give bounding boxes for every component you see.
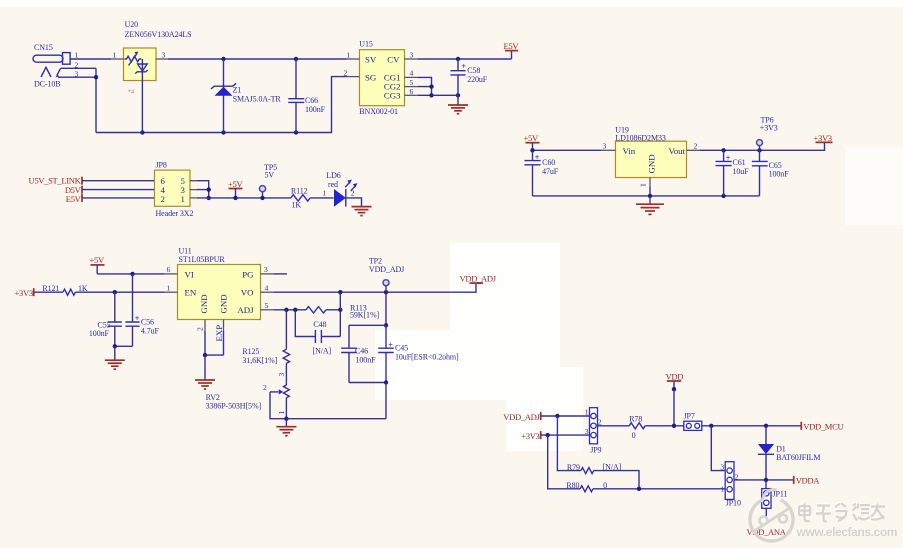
testpoint TP5 (259, 163, 277, 198)
node C55 bottom (113, 344, 117, 348)
svg-text:1: 1 (585, 408, 589, 417)
node C45 bottom (384, 380, 388, 384)
node ADJ right (338, 308, 342, 312)
svg-text:4: 4 (410, 69, 414, 78)
node C61 rail (721, 194, 725, 198)
svg-text:R125: R125 (242, 347, 259, 356)
wire top rail U20 to U15 (168, 58, 347, 60)
svg-text:Header 3X2: Header 3X2 (156, 209, 194, 218)
wire VDD down to line (673, 389, 675, 426)
wire LD6 to ground (346, 198, 361, 206)
jumper JP7 (684, 412, 702, 431)
svg-text:59K[1%]: 59K[1%] (350, 311, 380, 320)
svg-text:+3V3: +3V3 (814, 133, 832, 143)
svg-text:U15: U15 (359, 40, 373, 49)
wire R112 to LD6 (310, 197, 333, 199)
svg-text:ZEN056V130A24LS: ZEN056V130A24LS (125, 30, 192, 39)
svg-text:1: 1 (347, 51, 351, 60)
svg-text:E5V: E5V (504, 41, 520, 51)
node EXP (203, 353, 207, 357)
node CG2 (429, 84, 433, 88)
filter U15 BNX002-01 (344, 40, 419, 117)
svg-text:R121: R121 (42, 284, 59, 293)
svg-text:0: 0 (603, 481, 607, 490)
regulator U11 ST1L05BPUR (165, 247, 275, 342)
svg-text:GND: GND (647, 154, 657, 173)
svg-text:6: 6 (410, 87, 414, 96)
port VDD_MCU (801, 421, 844, 431)
power E5V (504, 41, 520, 59)
header JP9 (585, 408, 602, 455)
svg-text:VDDA: VDDA (796, 476, 821, 486)
svg-text:3: 3 (410, 51, 414, 60)
svg-text:GND: GND (219, 294, 229, 313)
port D5V (65, 185, 82, 195)
svg-text:1K: 1K (78, 284, 88, 293)
wire R121 to EN (75, 291, 164, 293)
svg-text:PG: PG (242, 269, 254, 279)
resistor R112 1K (291, 187, 310, 210)
wire ADJ line (274, 309, 306, 311)
wire R113 to vertical (326, 309, 340, 311)
node C46 link top (384, 323, 388, 327)
node C65 top (757, 148, 761, 152)
wire JP11 down (765, 508, 767, 524)
wire CV to E5V (418, 58, 512, 60)
node GND rail (648, 194, 652, 198)
capacitor C66 100nF (288, 59, 325, 133)
ground below C58 (448, 105, 468, 114)
node pin3 junction (94, 75, 98, 79)
svg-text:1K: 1K (292, 201, 302, 210)
svg-text:RV2: RV2 (206, 393, 220, 402)
wire U19 GND pin down (649, 187, 651, 196)
header JP11 (762, 489, 788, 509)
wire EXP pins down (205, 331, 224, 355)
svg-text:*4: *4 (128, 90, 134, 96)
svg-text:100nF: 100nF (356, 356, 377, 365)
svg-text:C66: C66 (305, 96, 318, 105)
svg-text:5V: 5V (265, 170, 275, 179)
capacitor C48 N/A (295, 310, 340, 356)
svg-text:CN15: CN15 (34, 43, 53, 52)
svg-text:VI: VI (185, 269, 194, 279)
svg-text:JP8: JP8 (156, 161, 167, 170)
capacitor C45 10uF (378, 325, 459, 382)
node RV2 ground (284, 417, 288, 421)
svg-text:1: 1 (277, 411, 286, 415)
testpoint TP6 (757, 115, 778, 150)
wire VO to VDD_ADJ (274, 283, 476, 292)
power +5V at JP8 (228, 179, 243, 198)
polyzen U20 ZEN056V130A24LS (111, 20, 192, 96)
wire VDD_ADJ to JP9 pin1 (541, 415, 590, 417)
wire bottom rail to C45 (286, 418, 386, 420)
port VDD_ADJ left (503, 412, 540, 422)
svg-text:C45: C45 (395, 344, 408, 353)
node JP10 branch (709, 424, 713, 428)
wire JP8 right bus (197, 181, 209, 198)
svg-text:+5V: +5V (228, 179, 243, 189)
wire +3V3 to R121 (34, 291, 63, 293)
svg-text:C61: C61 (733, 158, 746, 167)
capacitor C56 4.7uF (125, 274, 159, 346)
ground below RV2 (276, 427, 296, 436)
wire JP10 pin2 to VDDA (734, 479, 794, 481)
power +3V3 at U19 output (814, 133, 833, 143)
wire EXP to ground (204, 355, 206, 380)
power +5V at U19 input (524, 133, 540, 150)
wire ground rail U19 (533, 195, 760, 197)
resistor R79 N/A (557, 416, 639, 489)
svg-text:1: 1 (323, 189, 327, 198)
node top rail C66 (294, 57, 298, 61)
svg-text:10uF[ESR<0.2ohm]: 10uF[ESR<0.2ohm] (395, 353, 459, 362)
watermark chinese text (798, 502, 885, 522)
capacitor C65 100nF (752, 150, 789, 196)
svg-text:R112: R112 (291, 187, 308, 196)
node VDD_ADJ branch (555, 414, 559, 418)
port +3V3 at R121 (15, 288, 34, 298)
resistor R78 0 (629, 415, 645, 440)
svg-text:+: + (388, 340, 393, 349)
diode D1 BAT60JFILM (758, 426, 821, 480)
svg-text:+3V3: +3V3 (521, 431, 539, 441)
svg-text:220uF: 220uF (467, 75, 488, 84)
svg-text:3: 3 (264, 265, 268, 274)
node rail U20 (140, 130, 144, 134)
wire +5V to U19 Vin (533, 149, 602, 151)
svg-text:+3V3: +3V3 (760, 124, 778, 133)
svg-text:[N/A]: [N/A] (603, 462, 622, 471)
svg-text:3: 3 (603, 142, 607, 151)
capacitor C55 100nF (89, 292, 122, 346)
svg-text:R79: R79 (567, 463, 580, 472)
wire U15 CG bus (418, 77, 432, 95)
svg-text:VO: VO (241, 288, 254, 298)
svg-text:100nF: 100nF (769, 170, 790, 179)
svg-text:JP9: JP9 (590, 446, 601, 455)
wire JP7 to VDD_MCU (702, 425, 802, 427)
svg-text:1: 1 (167, 283, 171, 292)
wire +3V3 to JP9 pin3 (541, 434, 590, 436)
ground below C55 (105, 360, 125, 369)
svg-text:CV: CV (387, 54, 400, 64)
ground below EXP (195, 380, 215, 389)
capacitor C46 100nF (341, 325, 376, 382)
svg-text:VDD_ADJ: VDD_ADJ (369, 265, 404, 274)
svg-text:VDD_MCU: VDD_MCU (803, 421, 844, 431)
svg-text:3: 3 (720, 462, 724, 471)
svg-text:4: 4 (265, 283, 269, 292)
svg-text:C46: C46 (355, 347, 368, 356)
svg-text:EXP: EXP (214, 325, 224, 342)
ground below U19 (636, 196, 664, 215)
svg-text:+: + (726, 154, 731, 163)
node C56 top (130, 272, 134, 276)
svg-text:4.7uF: 4.7uF (141, 327, 160, 336)
resistor R80 0 (548, 435, 726, 492)
wire +5V to VI (97, 273, 164, 275)
node +5V junction (233, 196, 237, 200)
resistor R121 1K (42, 284, 88, 295)
svg-text:SG: SG (365, 73, 377, 83)
resistor R113 59K (306, 304, 380, 320)
svg-text:3: 3 (162, 51, 166, 60)
port U5V_ST_LINK (28, 176, 82, 186)
wire C46 top link (349, 324, 386, 326)
node ADJ R125 (284, 308, 288, 312)
testpoint TP2 (369, 257, 404, 293)
svg-text:1: 1 (639, 183, 648, 187)
svg-text:C48: C48 (313, 320, 326, 329)
svg-text:red: red (328, 180, 338, 189)
capacitor C61 10uF (716, 150, 750, 196)
svg-text:C56: C56 (141, 318, 154, 327)
ground below LD6 (352, 207, 372, 216)
node top rail Z1 (221, 57, 225, 61)
node C55 top (113, 290, 117, 294)
svg-text:3: 3 (585, 427, 589, 436)
svg-text:VDD_ADJ: VDD_ADJ (503, 412, 540, 422)
node bus pin1 (207, 196, 211, 200)
wire JP10 pin3 (711, 426, 725, 471)
svg-text:100nF: 100nF (305, 105, 326, 114)
wire CG bus to C58 (432, 94, 459, 96)
connector CN15 DC-10B (33, 43, 79, 88)
wire D1 to JP11 (765, 480, 767, 489)
port +3V3 bottom (521, 431, 540, 441)
svg-text:2: 2 (263, 383, 267, 392)
node D1 top (764, 424, 768, 428)
svg-text:www.elecfans.com: www.elecfans.com (796, 525, 898, 539)
svg-text:Vout: Vout (669, 146, 686, 156)
svg-text:VDD_ADJ: VDD_ADJ (460, 274, 497, 284)
svg-text:3386P-503H[5%]: 3386P-503H[5%] (206, 402, 262, 411)
svg-text:SMAJ5.0A-TR: SMAJ5.0A-TR (233, 95, 282, 104)
svg-text:R80: R80 (566, 481, 579, 490)
node C58 top (456, 57, 460, 61)
svg-text:GND: GND (199, 294, 209, 313)
svg-text:EN: EN (185, 288, 197, 298)
node rail Z1 (221, 130, 225, 134)
svg-text:E5V: E5V (66, 194, 82, 204)
svg-text:U20: U20 (125, 20, 139, 29)
svg-text:2: 2 (351, 189, 355, 198)
svg-text:BAT60JFILM: BAT60JFILM (776, 453, 820, 462)
svg-text:+: + (135, 314, 140, 323)
tvs diode Z1 SMAJ5.0A-TR (211, 59, 281, 133)
svg-text:C60: C60 (542, 158, 555, 167)
svg-text:JP10: JP10 (726, 499, 741, 508)
svg-text:CG3: CG3 (384, 90, 401, 100)
wire R125 to RV2 (285, 363, 287, 385)
node rail C66 (294, 130, 298, 134)
wire R78 to JP7 (645, 425, 684, 427)
potentiometer RV2 3386P-503H (206, 373, 290, 419)
power +5V at U11 (90, 255, 105, 274)
svg-text:BNX002-01: BNX002-01 (359, 107, 398, 116)
svg-text:10uF: 10uF (733, 167, 750, 176)
svg-text:3: 3 (277, 373, 286, 377)
svg-text:DC-10B: DC-10B (34, 79, 61, 88)
wire C45 down to rail (385, 383, 387, 419)
wire CN15 pin1 to U20 (70, 58, 111, 60)
wire to ground below C55 (114, 346, 116, 360)
svg-text:Vin: Vin (623, 146, 636, 156)
wire ports to JP8 (82, 181, 155, 198)
wire U19 Vout to +3V3 (700, 143, 825, 151)
node VDDA D1 (764, 478, 768, 482)
wire CN15 pin3 (58, 76, 96, 78)
svg-text:+5V: +5V (524, 133, 539, 143)
wire TP2 vertical to caps (385, 292, 387, 325)
svg-text:2: 2 (344, 68, 348, 77)
svg-text:5: 5 (265, 301, 269, 310)
resistor R125 31,6K (242, 310, 289, 365)
port VDD_ADJ right (460, 274, 497, 284)
node VO R113 vertical (338, 290, 342, 294)
svg-text:31,6K[1%]: 31,6K[1%] (242, 356, 277, 365)
power VDD (666, 371, 684, 391)
wire bottom ground rail (96, 77, 347, 133)
svg-text:ADJ: ADJ (237, 305, 254, 315)
svg-text:1: 1 (181, 194, 185, 204)
svg-text:6: 6 (167, 265, 171, 274)
capacitor C58 220uF (450, 59, 487, 105)
wire 5V line to R112 (197, 197, 291, 199)
node R79 R80 (637, 487, 641, 491)
node C60 (530, 148, 534, 152)
wire JP9 pin2 to R78 (598, 425, 630, 427)
svg-text:JP7: JP7 (684, 412, 695, 421)
svg-text:C58: C58 (467, 66, 480, 75)
svg-text:ST1L05BPUR: ST1L05BPUR (179, 255, 226, 264)
svg-text:VDD: VDD (666, 371, 684, 381)
svg-text:+: + (462, 62, 467, 71)
svg-text:47uF: 47uF (542, 167, 559, 176)
node VDD junction (672, 424, 676, 428)
wire to ground below RV2 (285, 419, 287, 427)
svg-text:[N/A]: [N/A] (313, 347, 332, 356)
svg-text:SV: SV (365, 54, 377, 64)
svg-text:100nF: 100nF (89, 329, 110, 338)
wire C55 C56 bottom link (115, 345, 133, 347)
svg-text:R78: R78 (629, 415, 642, 424)
svg-text:2: 2 (196, 327, 205, 331)
svg-text:LD6: LD6 (326, 171, 340, 180)
wire feedback vertical (339, 292, 341, 336)
watermark logo elecfans (750, 490, 793, 541)
node CG3 (429, 93, 433, 97)
header JP8 3X2 (155, 161, 198, 219)
node C58 bottom (456, 93, 460, 97)
wire C46 bottom link (349, 382, 386, 384)
wire U20 bottom pin to rail (141, 80, 143, 132)
svg-text:5: 5 (410, 78, 414, 87)
node bus pin3 (207, 187, 211, 191)
wire PG stub (274, 273, 287, 275)
wire CN15 pin2 (61, 67, 97, 69)
port E5V (66, 194, 82, 204)
node TP5 junction (260, 196, 264, 200)
capacitor C60 47uF (524, 150, 558, 196)
watermark url text (795, 524, 898, 539)
wire CN15 down to ground rail (95, 68, 97, 132)
svg-text:+: + (535, 153, 540, 162)
led LD6 red (323, 171, 358, 207)
port VDDA (794, 476, 821, 486)
svg-text:0: 0 (632, 431, 636, 440)
regulator U19 LD1086D2M33 (602, 126, 701, 188)
node C61 top (721, 148, 725, 152)
node VO TP2 (384, 290, 388, 294)
svg-text:2: 2 (694, 142, 698, 151)
node ADJ C48 (293, 308, 297, 312)
header JP10 (720, 462, 741, 508)
svg-text:Z1: Z1 (233, 86, 242, 95)
svg-text:+5V: +5V (90, 255, 105, 265)
svg-text:2: 2 (161, 194, 165, 204)
svg-text:1: 1 (113, 51, 117, 60)
svg-text:+3V3: +3V3 (15, 288, 33, 298)
node +3V3 branch (546, 433, 550, 437)
